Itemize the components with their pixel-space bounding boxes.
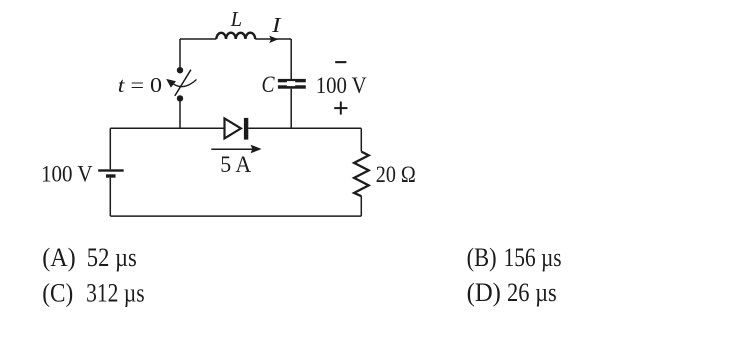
svg-text:100 V: 100 V: [41, 161, 93, 186]
svg-text:5 A: 5 A: [220, 152, 251, 177]
wire top horizontal right segment: [255, 38, 291, 40]
switch blade: [175, 70, 191, 96]
svg-text:t = 0: t = 0: [118, 73, 162, 97]
plus sign below 100 V: [334, 107, 347, 109]
wire top horizontal left segment: [180, 38, 216, 40]
wire right outer vertical lower (resistor to bottom wire): [360, 196, 362, 216]
minus sign above 100 V: [335, 61, 346, 63]
svg-text:20 Ω: 20 Ω: [376, 162, 416, 187]
diode cathode bar: [244, 118, 248, 140]
svg-text:(A): (A): [42, 243, 75, 272]
svg-text:L: L: [230, 7, 242, 31]
5 A current arrow head: [251, 145, 262, 154]
wire left outer vertical lower (battery to bottom wire): [109, 178, 111, 216]
battery 100 V short plate: [106, 174, 116, 177]
wire left branch lower (switch bottom dot to middle bus): [179, 101, 181, 128]
svg-text:156 µs: 156 µs: [504, 243, 562, 272]
switch closing arc: [170, 80, 197, 87]
switch top contact dot: [177, 67, 183, 73]
battery 100 V long plate: [98, 169, 124, 171]
switch bottom contact dot: [177, 95, 183, 101]
svg-text:52 µs: 52 µs: [87, 243, 137, 272]
wire middle bus right segment: [248, 127, 361, 129]
svg-text:312 µs: 312 µs: [86, 278, 145, 307]
current arrow I head: [269, 36, 278, 43]
inductor L: [216, 33, 255, 39]
wire left outer vertical upper (bus to battery): [109, 128, 111, 169]
wire right branch upper (top corner to capacitor): [290, 39, 292, 79]
capacitor center white notch: [287, 81, 295, 86]
wire bottom horizontal: [110, 215, 361, 217]
capacitor C top plate: [278, 79, 306, 82]
svg-text:C: C: [262, 72, 276, 97]
svg-text:I: I: [271, 13, 282, 37]
resistor 20 ohm zigzag: [354, 152, 369, 197]
wire middle bus left segment: [110, 127, 225, 129]
svg-text:(D): (D): [467, 278, 501, 307]
diode triangle: [225, 118, 241, 138]
svg-text:(C): (C): [42, 278, 73, 307]
svg-text:26 µs: 26 µs: [507, 278, 557, 307]
wire right branch lower (capacitor to middle bus): [290, 89, 292, 129]
5 A current arrow line: [211, 148, 253, 150]
wire right outer vertical upper (bus to resistor): [360, 128, 362, 151]
wire left branch upper (top corner to switch top dot): [179, 39, 181, 70]
svg-text:(B): (B): [467, 243, 497, 272]
capacitor C bottom plate: [278, 85, 306, 88]
switch arc arrowhead: [166, 79, 176, 88]
svg-text:100 V: 100 V: [316, 73, 367, 98]
